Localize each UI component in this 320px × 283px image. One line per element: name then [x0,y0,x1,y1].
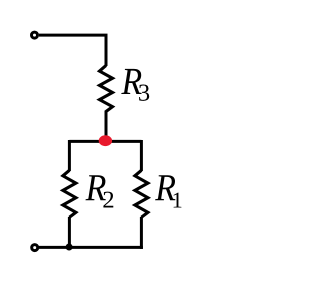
label R2 [85,175,105,200]
resistor R3 (zigzag) [100,65,113,111]
terminal (top-left input, open circle) [32,32,38,38]
wire (top horizontal from terminal, then down to R3 top lead) [39,35,106,66]
wire (R1 bottom lead down to bottom bus) [140,217,143,249]
junction (filled dot where R2 branch meets bottom bus) [66,244,73,251]
wire (left branch down to R2 top lead) [68,140,71,171]
wire (R2 bottom lead down to bottom bus) [68,217,71,247]
resistor R2 (zigzag) [63,170,76,217]
wire (bottom bus from terminal to right branch) [39,246,143,249]
terminal (bottom-left output, open circle) [32,245,38,251]
wire (R3 bottom lead down to red node) [105,111,108,140]
label R3 [121,69,141,94]
node (red junction dot) [99,135,112,146]
wire (horizontal bus through red node) [69,140,141,143]
label R1 [155,175,175,200]
wire (right branch down to R1 top lead) [140,140,143,171]
resistor R1 (zigzag) [135,170,148,217]
